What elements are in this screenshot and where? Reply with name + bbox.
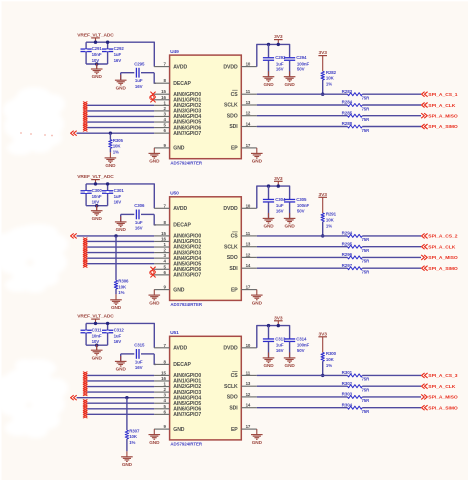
svg-text:100nF: 100nF: [297, 61, 310, 66]
svg-text:10nF: 10nF: [92, 52, 102, 57]
svg-text:SPI_A_MISO: SPI_A_MISO: [428, 395, 458, 401]
svg-text:50V: 50V: [297, 208, 305, 213]
svg-text:SPI_A_CLK: SPI_A_CLK: [428, 244, 455, 250]
svg-text:R306: R306: [118, 279, 129, 284]
svg-text:DECAP: DECAP: [173, 362, 191, 368]
svg-text:SDI: SDI: [229, 266, 238, 272]
svg-text:12: 12: [246, 111, 251, 116]
svg-text:DVDD: DVDD: [223, 346, 238, 352]
svg-text:100nF: 100nF: [297, 203, 310, 208]
svg-text:16V: 16V: [114, 58, 122, 63]
svg-text:10: 10: [246, 343, 251, 348]
svg-text:SPI_A_SIMO: SPI_A_SIMO: [428, 405, 458, 411]
svg-text:3V3: 3V3: [274, 34, 283, 40]
svg-text:SDO: SDO: [227, 255, 238, 261]
svg-text:GND: GND: [149, 440, 160, 445]
svg-text:GND: GND: [173, 146, 185, 152]
svg-text:75R: 75R: [362, 248, 371, 253]
svg-text:AIN7/GPIO7: AIN7/GPIO7: [173, 412, 201, 418]
svg-text:75R: 75R: [362, 409, 371, 414]
svg-text:16V: 16V: [135, 226, 143, 231]
svg-text:C305: C305: [296, 197, 307, 202]
svg-text:75R: 75R: [362, 388, 371, 393]
svg-text:SCLK: SCLK: [224, 244, 238, 250]
svg-text:ADS7924IRTER: ADS7924IRTER: [170, 302, 202, 307]
svg-text:CS: CS: [231, 92, 239, 98]
svg-text:SPI_A_CLK: SPI_A_CLK: [428, 103, 455, 109]
svg-text:R302: R302: [342, 381, 353, 386]
svg-text:1uF: 1uF: [276, 343, 284, 348]
svg-text:R305: R305: [113, 138, 124, 143]
svg-text:DVDD: DVDD: [223, 206, 238, 212]
svg-text:16V: 16V: [114, 200, 122, 205]
svg-text:50V: 50V: [297, 67, 305, 72]
svg-text:10K: 10K: [129, 434, 138, 439]
svg-text:DECAP: DECAP: [173, 223, 191, 229]
svg-text:17: 17: [246, 424, 251, 429]
svg-text:1%: 1%: [129, 440, 135, 445]
svg-text:75R: 75R: [362, 377, 371, 382]
svg-text:10K: 10K: [113, 144, 122, 149]
svg-text:R303: R303: [342, 392, 353, 397]
svg-text:10nF: 10nF: [92, 194, 102, 199]
svg-text:SDI: SDI: [229, 405, 238, 411]
svg-text:16: 16: [161, 95, 166, 100]
svg-text:SPI_A_MISO: SPI_A_MISO: [428, 255, 458, 261]
svg-text:C295: C295: [134, 61, 145, 66]
svg-text:U50: U50: [170, 191, 179, 197]
svg-text:10V: 10V: [92, 200, 100, 205]
svg-text:C291: C291: [92, 46, 103, 51]
svg-text:15: 15: [161, 370, 166, 375]
svg-text:C311: C311: [92, 327, 103, 332]
svg-text:SPI_A_CS_1: SPI_A_CS_1: [428, 92, 457, 98]
svg-text:SDO: SDO: [227, 395, 238, 401]
svg-text:10: 10: [246, 62, 251, 67]
svg-text:EP: EP: [231, 427, 238, 433]
svg-text:75R: 75R: [362, 270, 371, 275]
svg-text:CS: CS: [231, 373, 239, 379]
svg-text:AVDD: AVDD: [173, 64, 187, 70]
svg-text:GND: GND: [111, 305, 122, 310]
svg-text:16: 16: [161, 376, 166, 381]
svg-text:SDI: SDI: [229, 124, 238, 130]
svg-text:75R: 75R: [362, 117, 371, 122]
svg-text:GND: GND: [122, 462, 133, 467]
svg-text:15: 15: [161, 89, 166, 94]
svg-text:15: 15: [161, 231, 166, 236]
svg-text:AIN7/GPIO7: AIN7/GPIO7: [173, 273, 201, 279]
svg-text:GND: GND: [149, 300, 160, 305]
svg-text:ADS7924IRTER: ADS7924IRTER: [170, 442, 202, 447]
svg-text:AVDD: AVDD: [173, 346, 187, 352]
svg-text:CS: CS: [231, 234, 239, 240]
svg-text:10K: 10K: [326, 357, 335, 362]
svg-text:R304: R304: [342, 402, 353, 407]
svg-text:R291: R291: [326, 212, 337, 217]
svg-text:1uF: 1uF: [114, 333, 122, 338]
svg-text:C306: C306: [134, 203, 145, 208]
svg-text:16V: 16V: [135, 84, 143, 89]
svg-text:SPI_A_CS_2: SPI_A_CS_2: [428, 234, 457, 240]
svg-text:R285: R285: [342, 110, 353, 115]
svg-text:10V: 10V: [92, 58, 100, 63]
svg-text:75R: 75R: [362, 128, 371, 133]
svg-text:ADS7924IRTER: ADS7924IRTER: [170, 161, 202, 166]
svg-text:VREF_VLT_ADC: VREF_VLT_ADC: [77, 33, 114, 39]
svg-text:1uF: 1uF: [114, 194, 122, 199]
svg-text:10K: 10K: [326, 217, 335, 222]
svg-text:16V: 16V: [276, 348, 284, 353]
svg-text:GND: GND: [252, 159, 263, 164]
svg-text:C313: C313: [275, 336, 286, 341]
svg-text:GND: GND: [252, 300, 263, 305]
svg-text:DVDD: DVDD: [223, 64, 238, 70]
svg-text:16V: 16V: [135, 365, 143, 370]
svg-text:GND: GND: [263, 224, 274, 229]
svg-text:R283: R283: [342, 89, 353, 94]
svg-text:3V3: 3V3: [274, 176, 283, 182]
svg-text:75R: 75R: [362, 237, 371, 242]
svg-text:12: 12: [246, 392, 251, 397]
svg-text:AIN7/GPIO7: AIN7/GPIO7: [173, 131, 201, 137]
svg-text:C300: C300: [92, 188, 103, 193]
svg-text:C292: C292: [114, 46, 125, 51]
svg-text:75R: 75R: [362, 398, 371, 403]
svg-text:C294: C294: [296, 55, 307, 60]
svg-text:14: 14: [246, 263, 251, 268]
svg-text:10K: 10K: [118, 284, 127, 289]
svg-text:GND: GND: [263, 82, 274, 87]
svg-text:1%: 1%: [113, 149, 119, 154]
svg-text:1%: 1%: [326, 223, 332, 228]
svg-text:AVDD: AVDD: [173, 206, 187, 212]
svg-text:GND: GND: [116, 367, 127, 372]
svg-text:50V: 50V: [297, 348, 305, 353]
svg-text:C312: C312: [114, 327, 125, 332]
svg-text:SCLK: SCLK: [224, 384, 238, 390]
svg-text:R297: R297: [342, 263, 353, 268]
svg-text:GND: GND: [92, 216, 103, 221]
svg-text:100nF: 100nF: [297, 343, 310, 348]
svg-text:16V: 16V: [114, 339, 122, 344]
svg-text:VREF_VLT_ADC: VREF_VLT_ADC: [77, 314, 114, 320]
svg-text:75R: 75R: [362, 106, 371, 111]
svg-text:SPI_A_CLK: SPI_A_CLK: [428, 384, 455, 390]
svg-text:SPI_A_SIMO: SPI_A_SIMO: [428, 266, 458, 272]
svg-text:GND: GND: [105, 163, 116, 168]
svg-text:R282: R282: [326, 70, 337, 75]
svg-text:R307: R307: [129, 429, 140, 434]
svg-text:17: 17: [246, 285, 251, 290]
svg-text:R295: R295: [342, 241, 353, 246]
svg-text:GND: GND: [173, 427, 185, 433]
svg-text:12: 12: [246, 252, 251, 257]
svg-text:R284: R284: [342, 100, 353, 105]
svg-text:R294: R294: [342, 231, 353, 236]
svg-text:13: 13: [246, 100, 251, 105]
svg-text:SPI_A_CS_3: SPI_A_CS_3: [428, 373, 457, 379]
svg-text:GND: GND: [285, 363, 296, 368]
svg-text:GND: GND: [285, 224, 296, 229]
svg-text:VREF_VLT_ADC: VREF_VLT_ADC: [77, 174, 114, 180]
svg-text:16: 16: [161, 237, 166, 242]
svg-text:R300: R300: [326, 351, 337, 356]
svg-text:1%: 1%: [118, 290, 124, 295]
svg-text:SPI_A_SIMO: SPI_A_SIMO: [428, 124, 458, 130]
svg-text:C314: C314: [296, 336, 307, 341]
svg-text:EP: EP: [231, 287, 238, 293]
svg-text:1uF: 1uF: [114, 52, 122, 57]
svg-text:GND: GND: [173, 287, 185, 293]
svg-text:SDO: SDO: [227, 113, 238, 119]
svg-text:16V: 16V: [276, 208, 284, 213]
svg-text:10nF: 10nF: [92, 333, 102, 338]
svg-text:SCLK: SCLK: [224, 103, 238, 109]
svg-text:14: 14: [246, 403, 251, 408]
svg-text:C293: C293: [275, 55, 286, 60]
svg-text:SPI_A_MISO: SPI_A_MISO: [428, 114, 458, 120]
svg-text:R296: R296: [342, 252, 353, 257]
svg-text:GND: GND: [92, 74, 103, 79]
svg-text:1uF: 1uF: [276, 203, 284, 208]
svg-text:11: 11: [246, 370, 251, 375]
svg-text:17: 17: [246, 143, 251, 148]
svg-text:10: 10: [246, 203, 251, 208]
svg-text:GND: GND: [92, 355, 103, 360]
svg-text:11: 11: [246, 231, 251, 236]
svg-text:C315: C315: [134, 343, 145, 348]
svg-text:3V3: 3V3: [319, 192, 328, 198]
svg-text:GND: GND: [263, 363, 274, 368]
svg-text:1%: 1%: [326, 363, 332, 368]
svg-text:C304: C304: [275, 197, 286, 202]
svg-text:GND: GND: [252, 440, 263, 445]
svg-text:3V3: 3V3: [274, 315, 283, 321]
svg-text:GND: GND: [116, 86, 127, 91]
svg-text:11: 11: [246, 89, 251, 94]
svg-text:1%: 1%: [326, 82, 332, 87]
svg-text:1uF: 1uF: [135, 78, 143, 83]
svg-text:16V: 16V: [276, 67, 284, 72]
svg-text:3V3: 3V3: [319, 331, 328, 337]
svg-text:10V: 10V: [92, 339, 100, 344]
svg-text:3V3: 3V3: [319, 50, 328, 56]
svg-text:1uF: 1uF: [135, 359, 143, 364]
svg-text:C301: C301: [114, 188, 125, 193]
svg-text:10K: 10K: [326, 76, 335, 81]
svg-text:1uF: 1uF: [135, 220, 143, 225]
svg-text:14: 14: [246, 122, 251, 127]
svg-text:DECAP: DECAP: [173, 81, 191, 87]
svg-text:75R: 75R: [362, 96, 371, 101]
svg-text:13: 13: [246, 242, 251, 247]
svg-text:GND: GND: [149, 159, 160, 164]
svg-text:R288: R288: [342, 121, 353, 126]
svg-text:13: 13: [246, 381, 251, 386]
svg-text:GND: GND: [116, 227, 127, 232]
svg-text:1uF: 1uF: [276, 61, 284, 66]
svg-text:75R: 75R: [362, 259, 371, 264]
svg-text:R301: R301: [342, 370, 353, 375]
svg-text:GND: GND: [285, 82, 296, 87]
svg-text:U51: U51: [170, 330, 179, 336]
svg-text:EP: EP: [231, 146, 238, 152]
svg-text:U49: U49: [170, 49, 179, 55]
